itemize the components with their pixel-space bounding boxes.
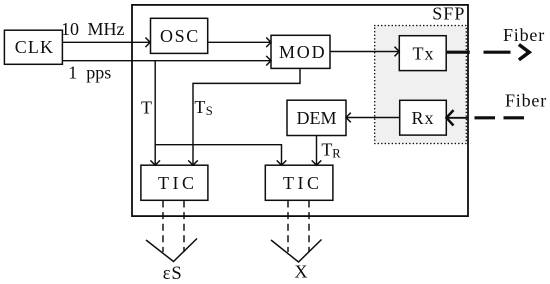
wire fiber in dashed thick bbox=[475, 116, 525, 119]
wire dashed output TIC left a bbox=[162, 201, 164, 253]
block MOD bbox=[271, 35, 330, 68]
wire Rx to DEM bbox=[346, 113, 400, 123]
svg-text:T: T bbox=[141, 97, 152, 117]
svg-text:Tx: Tx bbox=[413, 43, 435, 63]
SFP module dotted box bbox=[375, 26, 467, 144]
wire OSC output to MOD (10 MHz) bbox=[208, 38, 271, 48]
svg-text:DEM: DEM bbox=[297, 108, 337, 128]
block Rx bbox=[400, 100, 447, 135]
wire 10 MHz: CLK to OSC bbox=[62, 38, 150, 48]
svg-text:εS: εS bbox=[163, 264, 183, 284]
block TIC right bbox=[265, 165, 333, 200]
svg-text:Rx: Rx bbox=[412, 108, 435, 128]
svg-text:S: S bbox=[206, 104, 213, 118]
block OSC bbox=[151, 18, 208, 53]
svg-text:Fiber: Fiber bbox=[505, 91, 547, 111]
svg-text:X: X bbox=[295, 262, 308, 282]
wire fiber out dashed thick bbox=[484, 51, 511, 54]
wire MOD to Tx bbox=[330, 47, 399, 57]
wire Ts: MOD bottom loop to TIC left bbox=[188, 68, 300, 165]
svg-text:OSC: OSC bbox=[160, 26, 200, 46]
svg-text:1 pps: 1 pps bbox=[68, 63, 111, 83]
wire Tr: DEM down to TIC right bbox=[312, 136, 322, 166]
svg-text:TIC: TIC bbox=[283, 173, 323, 193]
block Tx bbox=[399, 36, 446, 71]
arrow V convergence left bbox=[146, 239, 197, 262]
svg-text:R: R bbox=[332, 147, 341, 161]
svg-text:T: T bbox=[321, 140, 332, 160]
wire dashed output TIC left b bbox=[183, 201, 185, 253]
svg-text:TIC: TIC bbox=[158, 173, 198, 193]
wire 1 pps: CLK to MOD bbox=[62, 56, 271, 66]
wire T branch to TIC right bbox=[155, 145, 286, 166]
svg-text:MOD: MOD bbox=[279, 42, 326, 62]
block CLK bbox=[4, 30, 62, 64]
svg-text:SFP: SFP bbox=[432, 4, 465, 24]
system enclosure box bbox=[132, 5, 468, 216]
wire dashed output TIC right a bbox=[287, 201, 289, 253]
wire dashed output TIC right b bbox=[308, 201, 310, 253]
arrow V convergence right bbox=[271, 240, 322, 263]
arrow fiber out chevron bbox=[519, 45, 529, 60]
wire T: tap from 1 pps line down to TIC left bbox=[150, 61, 160, 166]
svg-text:10 MHz: 10 MHz bbox=[61, 19, 125, 39]
svg-text:T: T bbox=[194, 97, 205, 117]
block TIC left bbox=[141, 165, 208, 200]
svg-text:Fiber: Fiber bbox=[503, 25, 545, 45]
block DEM bbox=[287, 100, 346, 135]
svg-text:CLK: CLK bbox=[15, 37, 54, 57]
wire Tx output thick to enclosure edge bbox=[446, 51, 470, 54]
wire fiber in solid into Rx with arrow bbox=[446, 110, 468, 125]
